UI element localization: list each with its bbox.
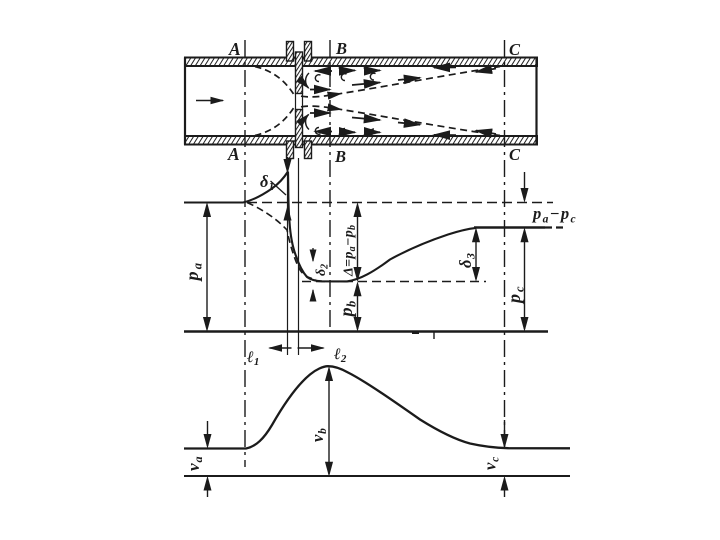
svg-text:δ1: δ1 <box>260 172 274 193</box>
svg-text:vc: vc <box>481 456 502 470</box>
svg-text:pb: pb <box>336 300 359 318</box>
svg-text:pa−pc: pa−pc <box>531 204 577 226</box>
svg-text:pa: pa <box>182 261 205 283</box>
svg-text:δ3: δ3 <box>456 253 478 268</box>
svg-text:C: C <box>509 40 521 59</box>
svg-text:pc: pc <box>504 284 527 305</box>
svg-text:A: A <box>228 39 241 59</box>
svg-text:B: B <box>335 39 347 58</box>
svg-text:ℓ2: ℓ2 <box>333 346 347 365</box>
svg-text:A: A <box>227 144 240 164</box>
svg-text:vb: vb <box>308 427 329 442</box>
svg-text:C: C <box>509 145 521 164</box>
svg-text:Δ=pa−pb: Δ=pa−pb <box>342 225 359 277</box>
svg-text:B: B <box>334 147 346 166</box>
svg-text:ℓ1: ℓ1 <box>246 349 259 368</box>
svg-text:δ2: δ2 <box>314 264 331 276</box>
svg-text:va: va <box>184 455 205 471</box>
